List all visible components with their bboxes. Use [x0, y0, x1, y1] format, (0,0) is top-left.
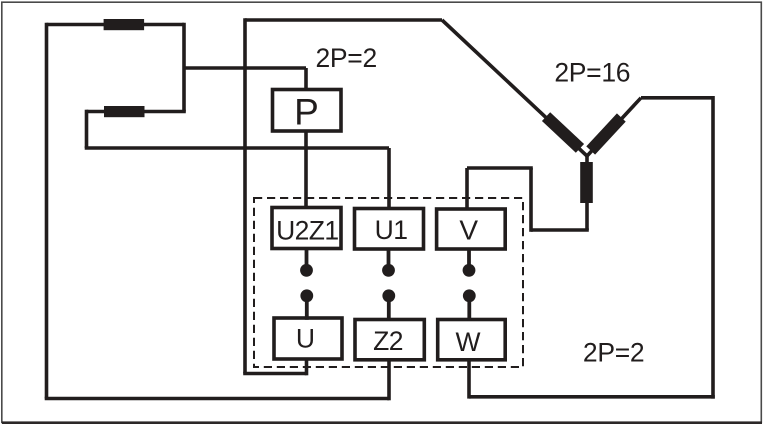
wire: loop top horizontal y=20 — [245, 18, 442, 22]
wire: loop bottom jog to U pin — [243, 372, 306, 376]
wire: top-left horizontal through link F1 — [47, 23, 185, 27]
svg-text:V: V — [459, 214, 478, 245]
terminal pin stub U2Z1-bottom — [305, 249, 309, 267]
terminal dot Z2 — [382, 289, 395, 302]
wire: stem to V jog horizontal y=230 — [531, 228, 589, 232]
terminal dot V — [463, 264, 476, 277]
terminal W — [438, 320, 506, 360]
svg-text:U1: U1 — [375, 215, 408, 245]
wire: V jog horizontal y=168 — [467, 166, 533, 170]
fuse link F1 (top left) — [104, 19, 145, 30]
terminal dot W — [463, 289, 476, 302]
wire: P bottom pin to U2Z1 top — [304, 130, 308, 209]
terminal pin stub U-top — [305, 298, 309, 320]
terminal dot U1 — [382, 264, 395, 277]
svg-text:P: P — [294, 91, 319, 132]
label 2P=2 (top) — [315, 43, 376, 73]
wire: star stem vertical — [585, 154, 589, 230]
wire: V jog vertical x=531 — [529, 168, 533, 232]
wire: left vertical x=46.5 full height — [45, 23, 49, 399]
terminal U2Z1 — [272, 208, 341, 249]
wire: V top pin — [465, 168, 469, 211]
wire: horizontal through link F2 to left bend — [87, 110, 186, 114]
wire: vertical x=184 from F1 wire down to F2 wire — [182, 23, 186, 112]
terminal pin stub V-bottom — [467, 249, 471, 267]
wire: bottom-right horizontal to W pin — [469, 395, 715, 399]
wire: top-right horizontal y=97.8 — [641, 96, 713, 100]
terminal pin stub U1-bottom — [387, 249, 391, 267]
meter P — [273, 90, 342, 133]
fuse link F2 (left lower) — [104, 106, 145, 117]
label 2P=2 (bottom right) — [583, 338, 644, 368]
terminal V — [437, 209, 506, 249]
wire: P top pin — [304, 68, 308, 91]
wire: horizontal y=148 to U1 column — [85, 146, 389, 150]
wire: bottom horizontal y=398.5 to Z2 pin — [45, 397, 389, 401]
wire: W bottom pin — [467, 358, 471, 399]
terminal Z2 — [355, 320, 424, 360]
wire: U1 top feed vertical x=389 — [387, 148, 391, 209]
wire: vertical x=86.5 down from F2 — [85, 110, 89, 148]
terminal U — [274, 318, 342, 359]
terminal board outline (dashed) — [254, 198, 523, 367]
fuse link (star stem) — [580, 162, 593, 203]
wire: diagonal to star point — [442, 20, 587, 156]
svg-text:U2Z1: U2Z1 — [276, 215, 338, 245]
svg-text:W: W — [455, 327, 480, 357]
wire: right vertical x=713 — [711, 96, 715, 399]
wire: U bottom pin — [305, 357, 309, 375]
terminal pin stub Z2-top — [387, 298, 391, 321]
wire: Z2 bottom pin — [387, 358, 391, 400]
svg-text:U: U — [296, 324, 315, 354]
terminal U1 — [355, 209, 424, 250]
wire: star right diagonal — [587, 98, 641, 156]
terminal pin stub W-top — [467, 298, 471, 321]
label 2P=16 — [554, 57, 630, 87]
wire: branch y=68 from x=184 to P top — [184, 66, 306, 70]
svg-text:2P=16: 2P=16 — [554, 57, 630, 87]
terminal dot U2Z1 — [300, 264, 313, 277]
svg-text:Z2: Z2 — [373, 326, 403, 356]
svg-text:2P=2: 2P=2 — [315, 43, 376, 73]
svg-text:2P=2: 2P=2 — [583, 338, 644, 368]
terminal dot U — [300, 289, 313, 302]
fuse link (star right arm) — [586, 113, 625, 154]
fuse link (star left arm) — [542, 112, 584, 153]
wire: loop left vertical x=245 — [243, 18, 247, 373]
